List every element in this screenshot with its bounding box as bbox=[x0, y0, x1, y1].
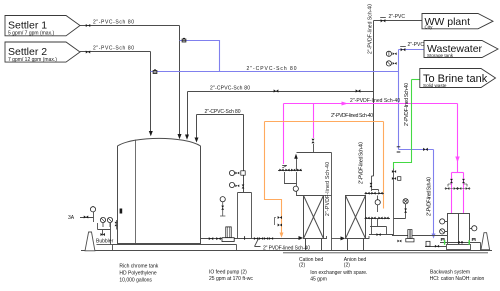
svg-text:2"-PVDF-lined Sch-40: 2"-PVDF-lined Sch-40 bbox=[325, 162, 331, 216]
gauge circle cation inlet bbox=[293, 186, 298, 191]
wire 3A branch bbox=[80, 212, 94, 222]
valve magenta feed left upper bbox=[450, 179, 453, 183]
wire anion outlet pipe bbox=[369, 234, 394, 236]
valve pump discharge b bbox=[259, 237, 263, 240]
valve pump discharge a bbox=[254, 237, 258, 240]
tick pump pipe start bbox=[244, 236, 246, 240]
flange backwash left bbox=[441, 239, 444, 242]
pump backwash box bbox=[426, 241, 430, 246]
valve magenta2 inline bbox=[311, 139, 314, 143]
svg-text:25 gpm at 170 ft-wc: 25 gpm at 170 ft-wc bbox=[209, 276, 253, 282]
wire backwash suction manifold bbox=[392, 235, 448, 237]
wire green drop bbox=[394, 80, 412, 169]
wire anion feed pipe bbox=[332, 238, 342, 240]
gauge circle bubbler b bbox=[107, 217, 112, 222]
valve cpvc1 right bbox=[356, 89, 361, 92]
tank seam line bbox=[135, 140, 137, 244]
valve anion row c bbox=[378, 192, 382, 195]
valve backwash lower pipe bbox=[435, 245, 439, 248]
wire settler2 vertical drop bbox=[150, 52, 152, 132]
wire blue main CPVC header bbox=[151, 71, 399, 73]
backwash cone bbox=[481, 233, 490, 250]
wire backwash left gauge stems bbox=[445, 222, 448, 232]
wire backwash under-tank pipe bbox=[440, 243, 481, 251]
instrument circle riser bottom bbox=[386, 61, 396, 66]
magenta piping bbox=[284, 104, 464, 214]
wire settler1 horizontal bbox=[80, 25, 180, 27]
wire anion lower valve stub bbox=[365, 218, 391, 220]
wire magenta drop to manifold bbox=[313, 104, 315, 139]
valve bubbler bottom bbox=[100, 233, 104, 236]
svg-text:City: City bbox=[425, 24, 434, 29]
svg-text:(2): (2) bbox=[299, 263, 305, 269]
wire bubbler manifold bbox=[98, 223, 111, 245]
valve anion lower b bbox=[371, 217, 375, 220]
valve brine pump suction bbox=[397, 240, 401, 243]
wire magenta backwash feed left bbox=[451, 173, 453, 214]
gauge circle bubbler a bbox=[100, 217, 105, 222]
svg-text:2"-CPVC-Sch 80: 2"-CPVC-Sch 80 bbox=[247, 66, 297, 72]
arrow cpvc2 into tank bbox=[195, 138, 199, 143]
wire anion cluster bracket bbox=[372, 190, 379, 192]
svg-text:3A: 3A bbox=[68, 215, 75, 221]
svg-text:45 gpm: 45 gpm bbox=[310, 276, 327, 282]
wire anion gauge drop bbox=[377, 196, 379, 200]
wire anion bottom manifold bbox=[370, 227, 387, 235]
valve cluster cation b bbox=[285, 169, 289, 172]
svg-text:2" PVDF-lined Sch-40: 2" PVDF-lined Sch-40 bbox=[263, 245, 310, 251]
wire backwash right gauge stem bbox=[470, 228, 472, 230]
wire drain branch diagonal bbox=[255, 239, 261, 247]
svg-text:(2): (2) bbox=[344, 263, 350, 269]
valve green drop b bbox=[392, 177, 401, 181]
svg-text:7 gpm/ 12 gpm (max.): 7 gpm/ 12 gpm (max.) bbox=[8, 57, 57, 63]
svg-text:2"-PVDF-lined Sch-40: 2"-PVDF-lined Sch-40 bbox=[404, 83, 410, 126]
svg-text:5 gpm/ 7 gpm (max.): 5 gpm/ 7 gpm (max.) bbox=[8, 30, 54, 36]
fitting blue branch upper bbox=[182, 38, 186, 42]
svg-text:Bubbler: Bubbler bbox=[96, 239, 114, 245]
wire bed top extension bbox=[324, 195, 332, 197]
flange backwash right bbox=[472, 239, 475, 242]
svg-text:2"-CPVC-Sch 80: 2"-CPVC-Sch 80 bbox=[205, 109, 241, 115]
wire WW plant top line bbox=[374, 20, 423, 22]
svg-text:2"-PVC: 2"-PVC bbox=[389, 14, 406, 20]
wire pump discharge pipe to cation bed bbox=[236, 238, 300, 240]
platform edge line bbox=[283, 252, 488, 254]
valve tank outlet b bbox=[216, 237, 220, 240]
svg-text:Ion exchanger with spare.: Ion exchanger with spare. bbox=[310, 270, 367, 276]
valve pump discharge c bbox=[264, 237, 268, 240]
flag Wastewater bbox=[424, 41, 498, 58]
wire cluster center riser bbox=[296, 159, 298, 171]
gauge circle backwash left top bbox=[440, 219, 445, 224]
valve cpvc1 mid bbox=[274, 89, 279, 92]
wire CPVC line1 drop to tank bbox=[187, 92, 189, 135]
wire orange drop right bbox=[383, 122, 385, 209]
wire blue settler1 branch bbox=[180, 41, 220, 72]
pump brine cylinder bbox=[406, 230, 414, 242]
arrow magenta header flow bbox=[342, 102, 349, 106]
wire blue drop to backwash bbox=[433, 150, 435, 235]
wire cluster to gauge circle bbox=[296, 172, 298, 186]
wire anion bottom hook bbox=[366, 236, 370, 239]
valve blue lower line bbox=[423, 148, 428, 151]
grey process piping details bbox=[80, 144, 481, 251]
orange piping bbox=[265, 122, 384, 234]
instrument circle riser top bbox=[386, 51, 396, 56]
wire blue lower horizontal bbox=[399, 149, 434, 151]
valve magenta feed right lower bbox=[454, 187, 458, 190]
valve orange drop lower bbox=[278, 224, 282, 227]
valve wastewater line bbox=[400, 46, 406, 51]
valve brine stem bbox=[404, 209, 407, 213]
flag Settler 2 bbox=[5, 42, 80, 63]
svg-text:Rich chrome tank: Rich chrome tank bbox=[119, 263, 158, 269]
svg-text:HD Polyethylene: HD Polyethylene bbox=[119, 270, 156, 276]
wire magenta header bbox=[284, 103, 458, 105]
wire settler1 vertical drop bbox=[179, 26, 181, 135]
svg-text:2"-PVDF-lined Sch-40: 2"-PVDF-lined Sch-40 bbox=[350, 98, 400, 104]
valve cluster cation a bbox=[279, 169, 283, 172]
valve tank outlet a bbox=[209, 237, 213, 240]
wire tank outlet to pump suction bbox=[201, 238, 238, 240]
gauge circle backwash left bottom bbox=[440, 229, 445, 234]
svg-text:Solid waste: Solid waste bbox=[423, 83, 447, 88]
wire CPVC line1 horizontal bbox=[188, 91, 374, 93]
valve backwash top a bbox=[457, 187, 461, 190]
arrow magenta into backwash manifold bbox=[455, 157, 459, 163]
svg-text:2"-PVDF-lined Sch-40: 2"-PVDF-lined Sch-40 bbox=[359, 142, 365, 184]
valve anion row a bbox=[365, 192, 369, 195]
valve 3A bbox=[84, 215, 88, 218]
dots backwash pipe bbox=[458, 241, 463, 243]
valve anion row b bbox=[371, 192, 375, 195]
junction tick blue riser bbox=[397, 147, 401, 152]
wire riser to WW plant bbox=[373, 21, 375, 177]
gauge circle 3A top bbox=[90, 206, 95, 212]
svg-text:2"-PVC: 2"-PVC bbox=[408, 42, 425, 48]
wire magenta2 valve to manifold bbox=[313, 144, 315, 153]
valve cluster cation c bbox=[291, 169, 295, 172]
wire cation valve cluster stub bbox=[278, 170, 302, 172]
valve anion riser inline bbox=[370, 183, 373, 187]
arrow settler1 into tank bbox=[178, 134, 182, 139]
svg-text:2"-PVDF-lined Sch-40: 2"-PVDF-lined Sch-40 bbox=[331, 113, 373, 119]
cation bed vessel bbox=[304, 196, 324, 251]
green piping bbox=[394, 80, 420, 169]
wire 3A gauges link bbox=[103, 223, 110, 227]
tank rich chrome outline bbox=[118, 138, 201, 243]
wire cation bottom hook bbox=[324, 236, 327, 239]
svg-text:HCl: cation NaOH: anion: HCl: cation NaOH: anion bbox=[430, 276, 485, 282]
gauge circle backwash right bbox=[472, 226, 477, 231]
wire magenta drop right bbox=[457, 104, 459, 173]
arrow blue into backwash bbox=[432, 234, 436, 239]
wire anion gauge to valves bbox=[377, 205, 379, 212]
wire blue riser bbox=[398, 50, 400, 150]
wire CPVC line2 horizontal bbox=[197, 114, 244, 116]
valve settler1 line bbox=[86, 24, 90, 27]
anion bed vessel bbox=[346, 196, 366, 251]
backwash tanks bbox=[447, 214, 471, 250]
wire anion right riser bbox=[372, 176, 374, 191]
svg-text:10,000 gallons: 10,000 gallons bbox=[119, 277, 152, 283]
wire orange header bbox=[265, 121, 384, 123]
green tick backwash right bbox=[468, 240, 470, 245]
gauge circle pump left bbox=[220, 197, 225, 216]
valve green drop a bbox=[392, 170, 396, 173]
wire gauge to bed top bbox=[297, 192, 304, 196]
wire magenta backwash feed right bbox=[463, 173, 465, 214]
wire green to brine flag bbox=[412, 79, 420, 81]
svg-text:2"-PVC-Sch 80: 2"-PVC-Sch 80 bbox=[93, 46, 134, 52]
valve settler2 line bbox=[86, 50, 90, 53]
flag To Brine tank bbox=[420, 69, 496, 88]
gauge circle anion bbox=[375, 200, 380, 205]
valve ww top line bbox=[380, 18, 386, 23]
fitting blue branch lower bbox=[153, 69, 157, 73]
flag WW plant bbox=[422, 14, 493, 30]
wire anion cluster row stub bbox=[365, 193, 385, 195]
wire bubbler pipe bbox=[97, 244, 113, 246]
flag Settler 1 bbox=[5, 16, 80, 37]
tank pad bbox=[113, 245, 237, 251]
wire manifold above cation bed bbox=[297, 152, 332, 154]
tick magenta1 end bbox=[282, 166, 287, 169]
svg-text:Storage tank: Storage tank bbox=[427, 53, 454, 58]
wire pump riser manifold bbox=[238, 193, 252, 239]
arrow cpvc1 into tank bbox=[185, 135, 189, 140]
wire magenta drop to cation valves bbox=[283, 104, 285, 165]
wire cluster left drop elbow bbox=[285, 172, 297, 184]
valve anion lower a bbox=[365, 217, 369, 220]
valve cluster cation d bbox=[297, 169, 301, 172]
svg-text:Backwash system: Backwash system bbox=[430, 270, 470, 276]
valve backwash top d bbox=[448, 184, 467, 187]
bubbler cone bbox=[85, 232, 95, 251]
ground line bbox=[81, 250, 492, 252]
wire settler2 horizontal bbox=[80, 51, 151, 53]
wire anion lower drop bbox=[372, 219, 378, 235]
arrow into anion bed bbox=[341, 236, 346, 240]
wire bubbler check drop bbox=[116, 220, 118, 230]
wire interbed vertical to ground bbox=[331, 153, 333, 251]
wire brine gauge stem bbox=[394, 204, 406, 219]
wire magenta backwash tee bbox=[452, 172, 464, 174]
valve anion lower c bbox=[378, 217, 382, 220]
wire CPVC line2 drop to tank bbox=[196, 115, 198, 138]
valve orange drop upper bbox=[275, 216, 282, 225]
wire orange drop left jog bbox=[265, 122, 282, 234]
svg-text:2"-PVDF-lined Sch-40: 2"-PVDF-lined Sch-40 bbox=[426, 177, 432, 216]
arrow into cation bed bbox=[299, 236, 304, 240]
arrow cluster up into manifold bbox=[294, 154, 298, 159]
gauge circle brine pump bbox=[403, 199, 408, 204]
tank wall fitting bbox=[120, 209, 123, 214]
svg-text:2"-PVC-Sch 80: 2"-PVC-Sch 80 bbox=[93, 20, 134, 26]
wire brine pump column bbox=[393, 169, 395, 236]
valve magenta feed left lower bbox=[445, 187, 449, 190]
svg-text:2"-PVDF-lined Sch-40: 2"-PVDF-lined Sch-40 bbox=[368, 4, 374, 54]
valve magenta feed right upper bbox=[462, 179, 465, 183]
wire backwash lower pipe bbox=[425, 246, 447, 248]
gauge circle pump top bbox=[229, 170, 245, 175]
svg-text:IO feed pump (2): IO feed pump (2) bbox=[209, 270, 247, 276]
valve backwash top b bbox=[466, 187, 470, 190]
wire blue to wastewater flag bbox=[399, 49, 425, 51]
valve backwash top c bbox=[445, 188, 471, 190]
gauge circle pump mid bbox=[229, 182, 244, 188]
valve anion lower d bbox=[384, 217, 388, 220]
pump IO cylinder bbox=[222, 227, 234, 242]
arrow orange into pump pipe bbox=[280, 233, 284, 238]
wire CPVC line2 drop to pump bbox=[243, 115, 245, 193]
blue piping bbox=[151, 41, 434, 235]
valve pump discharge d bbox=[269, 237, 273, 240]
green tick backwash left bbox=[444, 240, 446, 245]
valve anion outlet bbox=[377, 233, 381, 236]
check valve bubbler bbox=[115, 222, 118, 226]
svg-text:2"-CPVC-Sch 80: 2"-CPVC-Sch 80 bbox=[210, 86, 250, 92]
arrow settler2 into tank bbox=[149, 131, 153, 136]
